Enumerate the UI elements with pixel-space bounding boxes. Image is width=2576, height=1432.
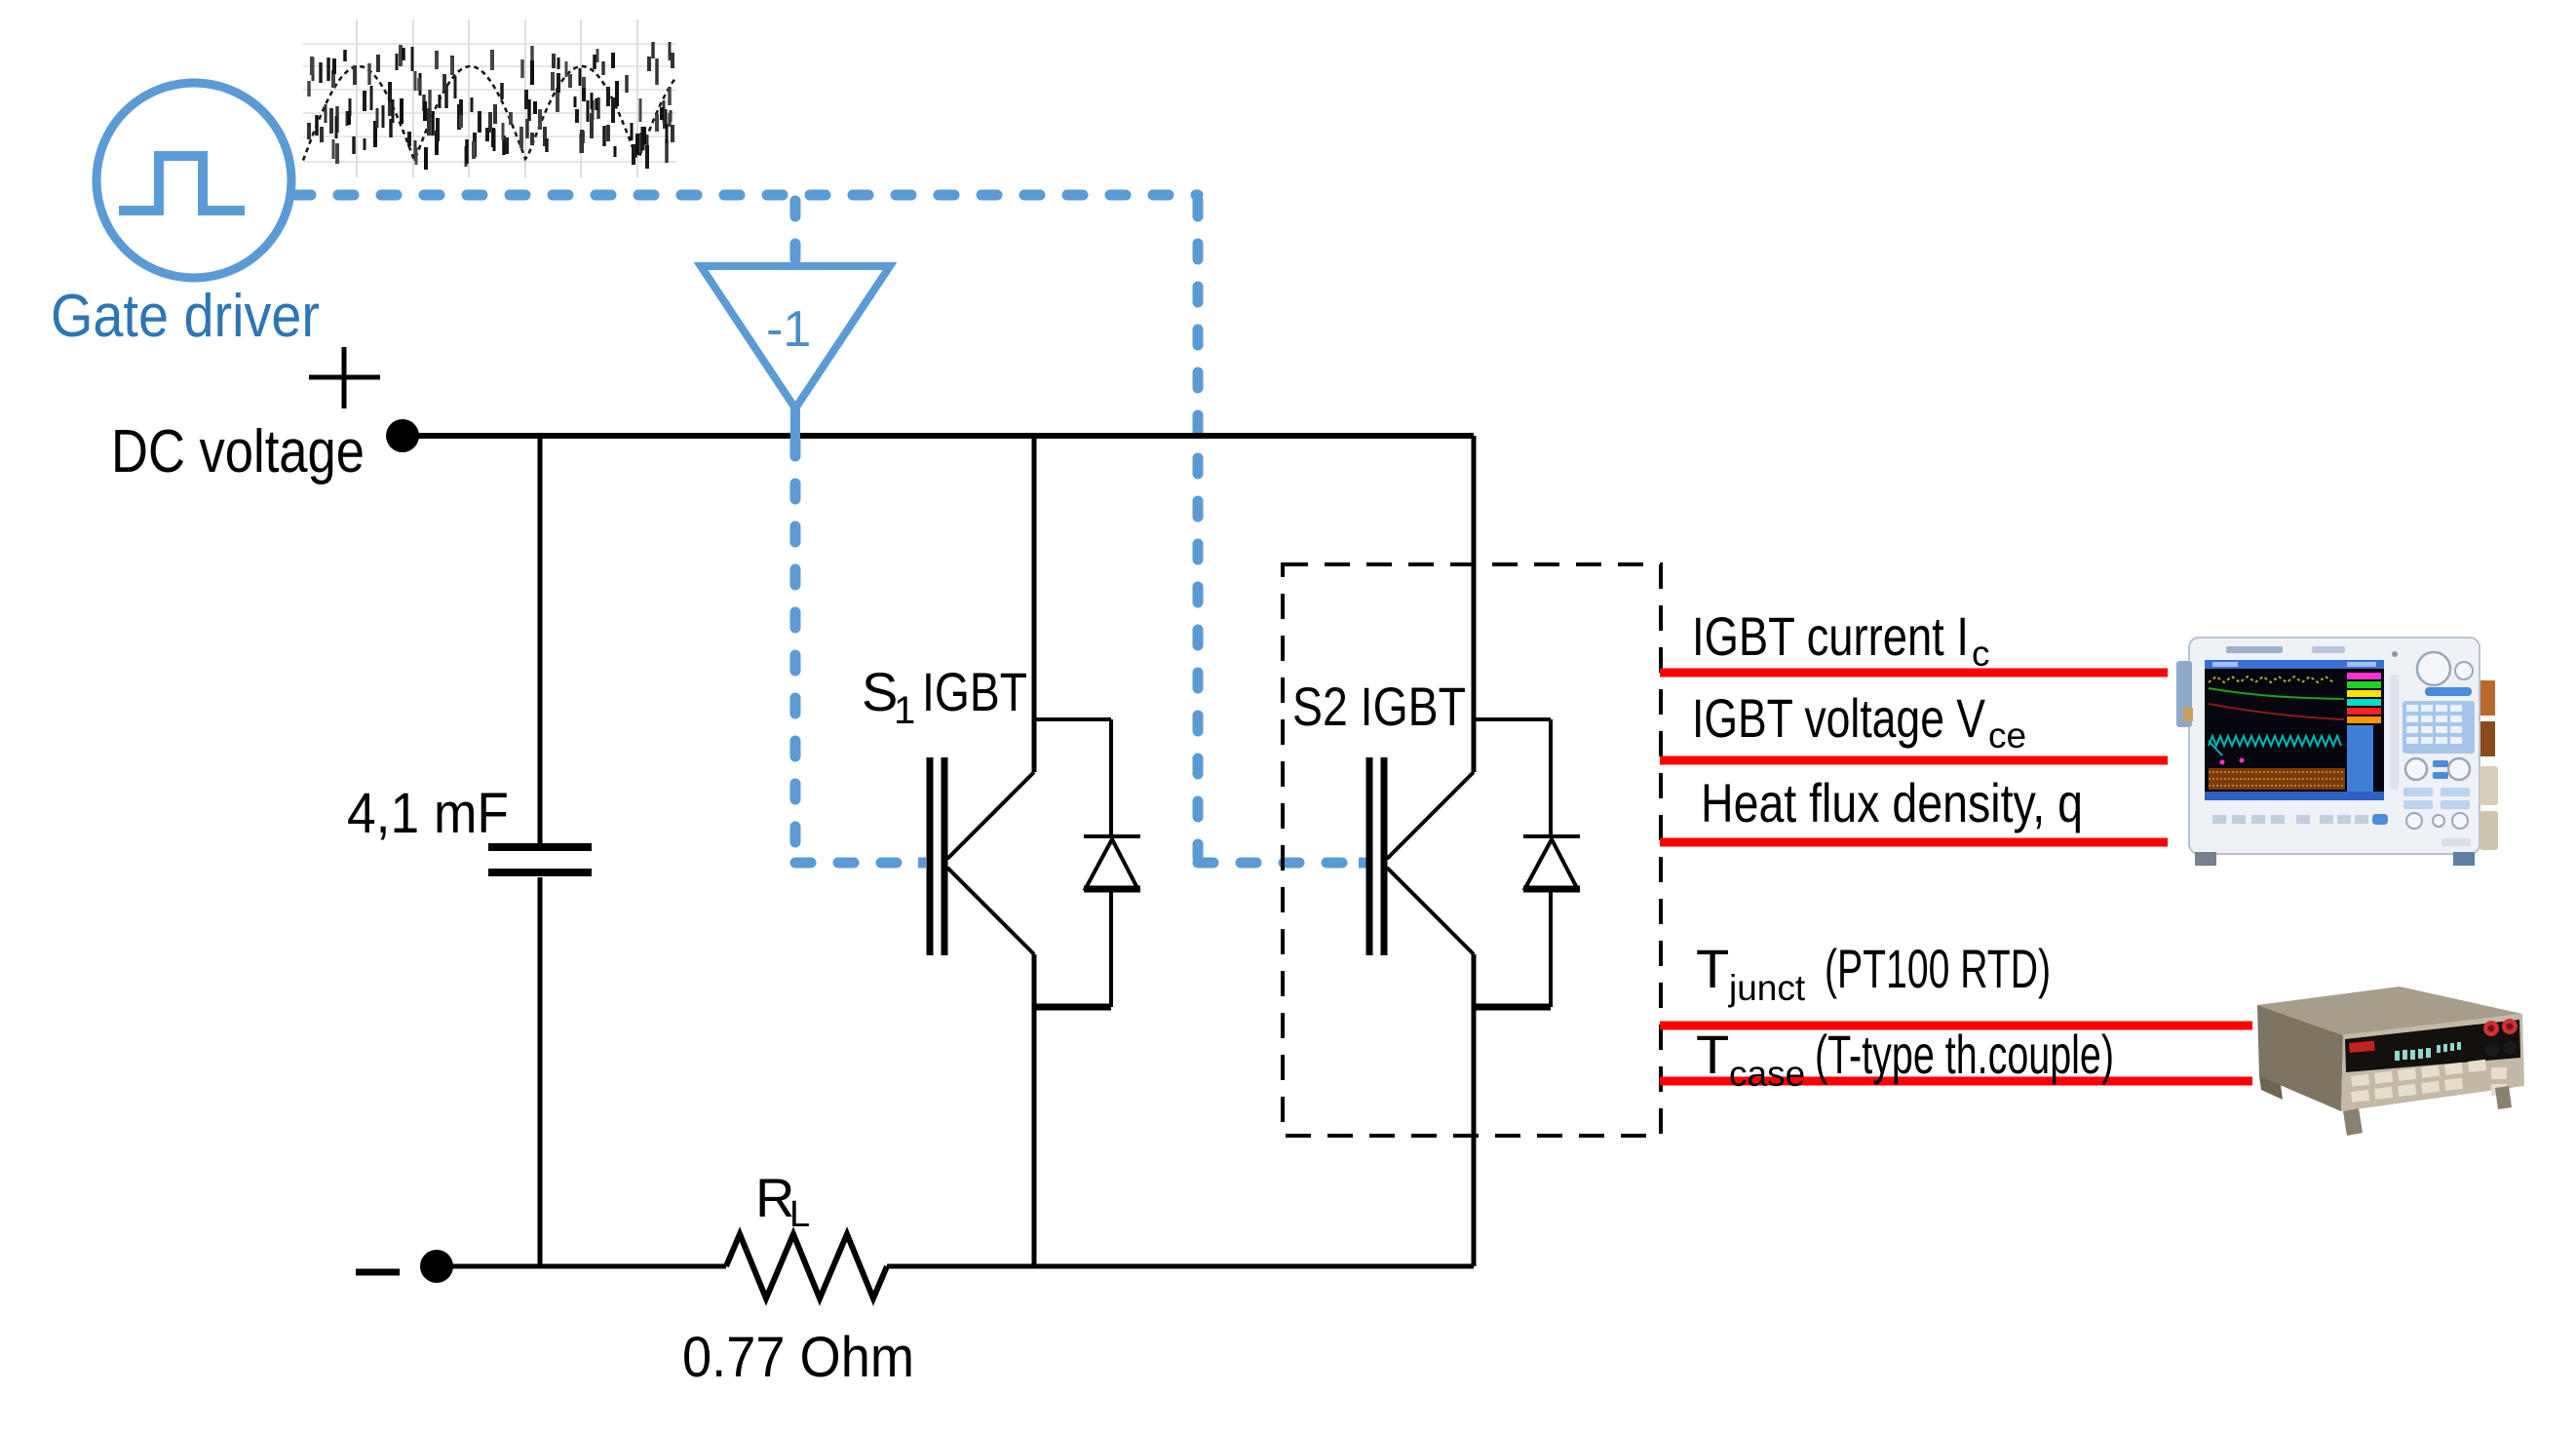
- gate driver source symbol: [96, 83, 291, 278]
- node: DC- terminal: [420, 1250, 453, 1283]
- diode D-S1: [1109, 719, 1113, 838]
- svg-text:S: S: [862, 661, 898, 722]
- wire: S2 collector: [1472, 436, 1477, 772]
- measurement tap lines: [1660, 673, 2252, 1081]
- wire: inverter output over bus: [790, 410, 800, 441]
- svg-text:Heat flux density, q: Heat flux density, q: [1701, 772, 2083, 833]
- node: DC+ terminal: [386, 419, 419, 452]
- capacitor C 4,1 mF: [488, 436, 592, 1266]
- IGBT S2 with freewheeling diode: [1369, 436, 1580, 1266]
- wire: S2 emitter: [1472, 954, 1477, 1266]
- svg-text:IGBT current I: IGBT current I: [1692, 605, 1969, 667]
- plus sign: [309, 347, 380, 408]
- benchtop multimeter instrument: [2257, 987, 2524, 1136]
- PWM waveform inset: [303, 19, 676, 177]
- svg-text:Gate driver: Gate driver: [51, 283, 320, 350]
- device-under-test dashed box around S2: [1283, 564, 1661, 1136]
- svg-text:(PT100 RTD): (PT100 RTD): [1825, 938, 2051, 999]
- wire: Tjunct tap: [1660, 1022, 2252, 1030]
- svg-text:-1: -1: [766, 301, 811, 358]
- svg-text:IGBT voltage V: IGBT voltage V: [1692, 687, 1986, 749]
- resistor RL: [726, 1234, 887, 1298]
- wire: Tcase tap: [1660, 1077, 2252, 1086]
- diode D-S2: [1549, 719, 1553, 838]
- wire: IGBT current tap: [1660, 669, 2168, 677]
- svg-text:1: 1: [894, 689, 915, 732]
- svg-text:S2 IGBT: S2 IGBT: [1292, 676, 1466, 737]
- IGBT S1 with freewheeling diode: [930, 436, 1140, 1266]
- svg-text:IGBT: IGBT: [922, 661, 1027, 722]
- wire: S2 emitter-diode jog: [1474, 1004, 1551, 1011]
- minus sign: [356, 1269, 400, 1276]
- svg-text:(T-type th.couple): (T-type th.couple): [1815, 1024, 2114, 1085]
- wire: DC+ bus: [403, 433, 1474, 439]
- wire: S1 emitter-diode jog: [1034, 1004, 1111, 1011]
- wire: heat flux tap: [1660, 838, 2168, 847]
- wire: S2 collector-diode jog: [1474, 717, 1551, 721]
- wire: S1 collector-diode jog: [1034, 717, 1111, 721]
- svg-text:T: T: [1696, 938, 1729, 999]
- svg-text:4,1 mF: 4,1 mF: [347, 782, 509, 845]
- wire: IGBT voltage tap: [1660, 756, 2168, 765]
- wire: S1 collector: [1032, 436, 1037, 772]
- oscilloscope instrument: [2176, 638, 2498, 866]
- svg-text:0.77 Ohm: 0.77 Ohm: [682, 1326, 914, 1389]
- svg-text:c: c: [1972, 634, 1990, 674]
- wire: negative rail left: [437, 1264, 726, 1269]
- inverter -1 block: [701, 266, 890, 408]
- transistor S2: [1387, 772, 1474, 859]
- svg-text:DC voltage: DC voltage: [111, 418, 365, 485]
- svg-text:L: L: [789, 1194, 810, 1235]
- wire: gate driver dashed bus: [295, 195, 1366, 863]
- svg-text:case: case: [1729, 1054, 1805, 1094]
- wire: negative rail right: [887, 1264, 1474, 1269]
- svg-text:ce: ce: [1988, 716, 2026, 755]
- wire: S1 emitter: [1032, 954, 1037, 1266]
- svg-text:T: T: [1696, 1024, 1729, 1085]
- svg-text:junct: junct: [1728, 968, 1806, 1008]
- transistor S1: [947, 772, 1034, 859]
